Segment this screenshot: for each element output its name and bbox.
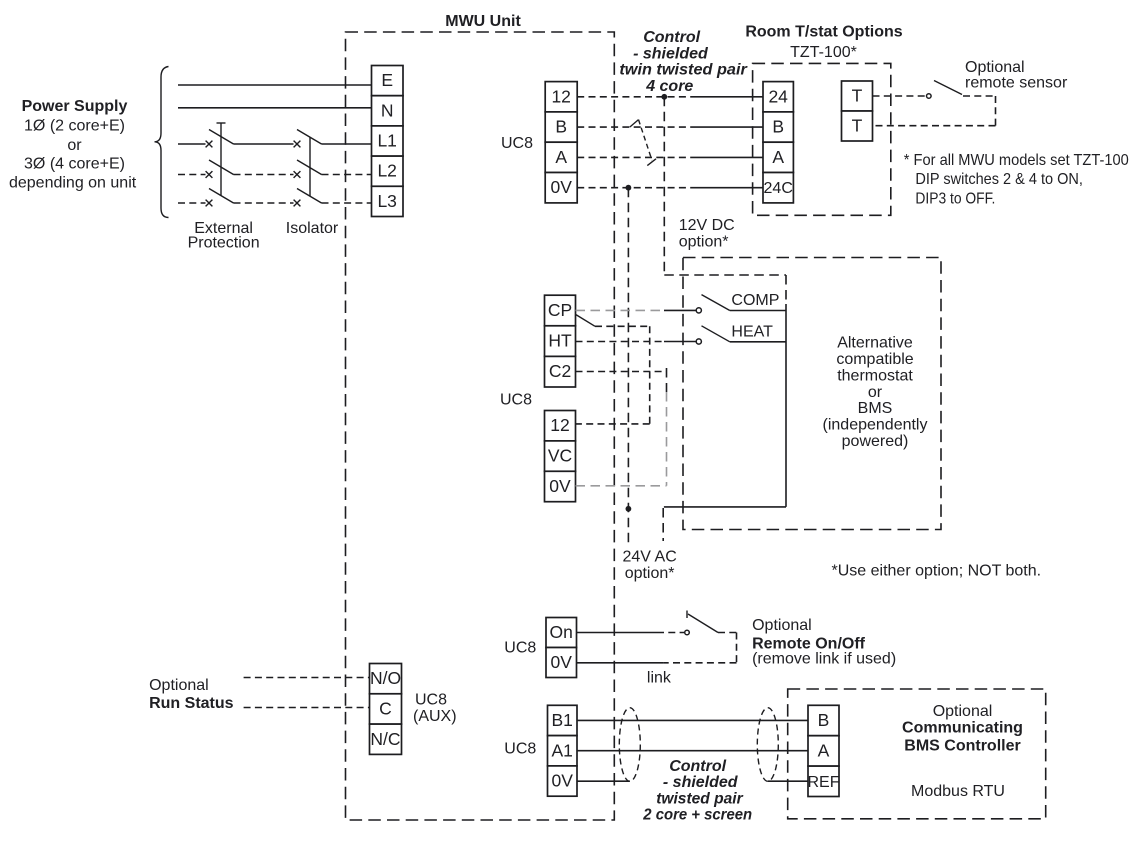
svg-text:Communicating: Communicating [902, 720, 1023, 737]
svg-text:A: A [818, 740, 830, 760]
svg-text:twin twisted pair: twin twisted pair [619, 62, 747, 79]
svg-text:B: B [772, 117, 784, 137]
svg-text:COMP: COMP [731, 292, 779, 309]
svg-text:REF: REF [808, 774, 840, 791]
svg-text:Optional: Optional [933, 703, 993, 720]
svg-text:0V: 0V [550, 652, 572, 672]
svg-text:A1: A1 [551, 740, 572, 760]
svg-text:remote sensor: remote sensor [965, 75, 1068, 92]
svg-text:Protection: Protection [188, 235, 260, 252]
svg-text:N/C: N/C [370, 729, 400, 749]
svg-text:1Ø (2 core+E): 1Ø (2 core+E) [24, 118, 125, 135]
svg-text:4 core: 4 core [645, 78, 693, 95]
svg-text:UC8: UC8 [504, 640, 536, 657]
svg-text:A: A [772, 147, 784, 167]
svg-text:12V DC: 12V DC [679, 217, 735, 234]
svg-text:thermostat: thermostat [837, 367, 913, 384]
svg-text:Run Status: Run Status [149, 695, 234, 712]
svg-text:UC8: UC8 [504, 741, 536, 758]
svg-text:TZT-100*: TZT-100* [790, 44, 857, 61]
svg-text:Control: Control [669, 758, 726, 775]
svg-text:MWU Unit: MWU Unit [445, 13, 521, 30]
svg-text:UC8: UC8 [500, 392, 532, 409]
svg-text:12: 12 [550, 415, 569, 435]
svg-text:- shielded: - shielded [633, 45, 709, 62]
svg-text:B: B [555, 117, 567, 137]
svg-text:24V AC: 24V AC [623, 549, 677, 566]
svg-text:24: 24 [768, 86, 788, 106]
svg-text:HEAT: HEAT [731, 324, 773, 341]
svg-text:DIP3 to OFF.: DIP3 to OFF. [915, 190, 995, 207]
svg-text:Room T/stat Options: Room T/stat Options [745, 23, 902, 40]
svg-text:- shielded: - shielded [663, 774, 739, 791]
svg-text:C2: C2 [549, 361, 571, 381]
svg-text:option*: option* [625, 565, 675, 582]
svg-text:A: A [555, 147, 567, 167]
svg-text:depending on unit: depending on unit [9, 174, 137, 191]
svg-text:or: or [868, 384, 883, 401]
svg-text:L3: L3 [377, 191, 396, 211]
svg-text:L2: L2 [377, 161, 396, 181]
svg-text:E: E [381, 70, 393, 90]
svg-text:N/O: N/O [370, 668, 401, 688]
svg-text:Isolator: Isolator [286, 220, 339, 237]
svg-text:Alternative: Alternative [837, 335, 913, 352]
svg-text:link: link [647, 670, 672, 687]
svg-text:24C: 24C [764, 180, 793, 197]
svg-text:L1: L1 [377, 131, 396, 151]
svg-text:N: N [381, 100, 394, 120]
svg-text:0V: 0V [551, 771, 573, 791]
svg-text:option*: option* [679, 234, 729, 251]
svg-text:B1: B1 [551, 710, 572, 730]
svg-text:(independently: (independently [823, 417, 928, 434]
svg-text:* For all MWU models set TZT-1: * For all MWU models set TZT-100 [904, 152, 1129, 169]
svg-text:Modbus RTU: Modbus RTU [911, 783, 1005, 800]
svg-text:Power Supply: Power Supply [22, 98, 128, 115]
svg-text:BMS: BMS [858, 400, 893, 417]
svg-text:3Ø (4 core+E): 3Ø (4 core+E) [24, 155, 125, 172]
svg-text:DIP switches 2 & 4 to ON,: DIP switches 2 & 4 to ON, [915, 171, 1083, 188]
svg-text:twisted pair: twisted pair [656, 790, 743, 807]
svg-text:12: 12 [551, 86, 570, 106]
svg-text:HT: HT [548, 331, 572, 351]
svg-text:C: C [379, 699, 392, 719]
svg-text:or: or [67, 137, 82, 154]
svg-text:Optional: Optional [752, 617, 812, 634]
svg-text:(AUX): (AUX) [413, 708, 457, 725]
svg-text:T: T [852, 116, 863, 136]
svg-text:compatible: compatible [836, 351, 913, 368]
svg-text:*Use either option; NOT both.: *Use either option; NOT both. [832, 563, 1042, 580]
svg-text:CP: CP [548, 300, 572, 320]
svg-text:0V: 0V [550, 177, 572, 197]
svg-text:0V: 0V [549, 476, 571, 496]
svg-text:BMS Controller: BMS Controller [904, 737, 1020, 754]
svg-text:powered): powered) [842, 433, 909, 450]
svg-text:B: B [818, 710, 830, 730]
svg-text:T: T [852, 86, 863, 106]
svg-text:Control: Control [643, 29, 700, 46]
svg-text:VC: VC [548, 446, 572, 466]
svg-text:UC8: UC8 [415, 692, 447, 709]
svg-text:On: On [550, 622, 573, 642]
svg-text:(remove link if used): (remove link if used) [752, 651, 896, 668]
svg-text:Optional: Optional [149, 677, 209, 694]
svg-text:UC8: UC8 [501, 135, 533, 152]
svg-text:2 core + screen: 2 core + screen [642, 807, 752, 824]
